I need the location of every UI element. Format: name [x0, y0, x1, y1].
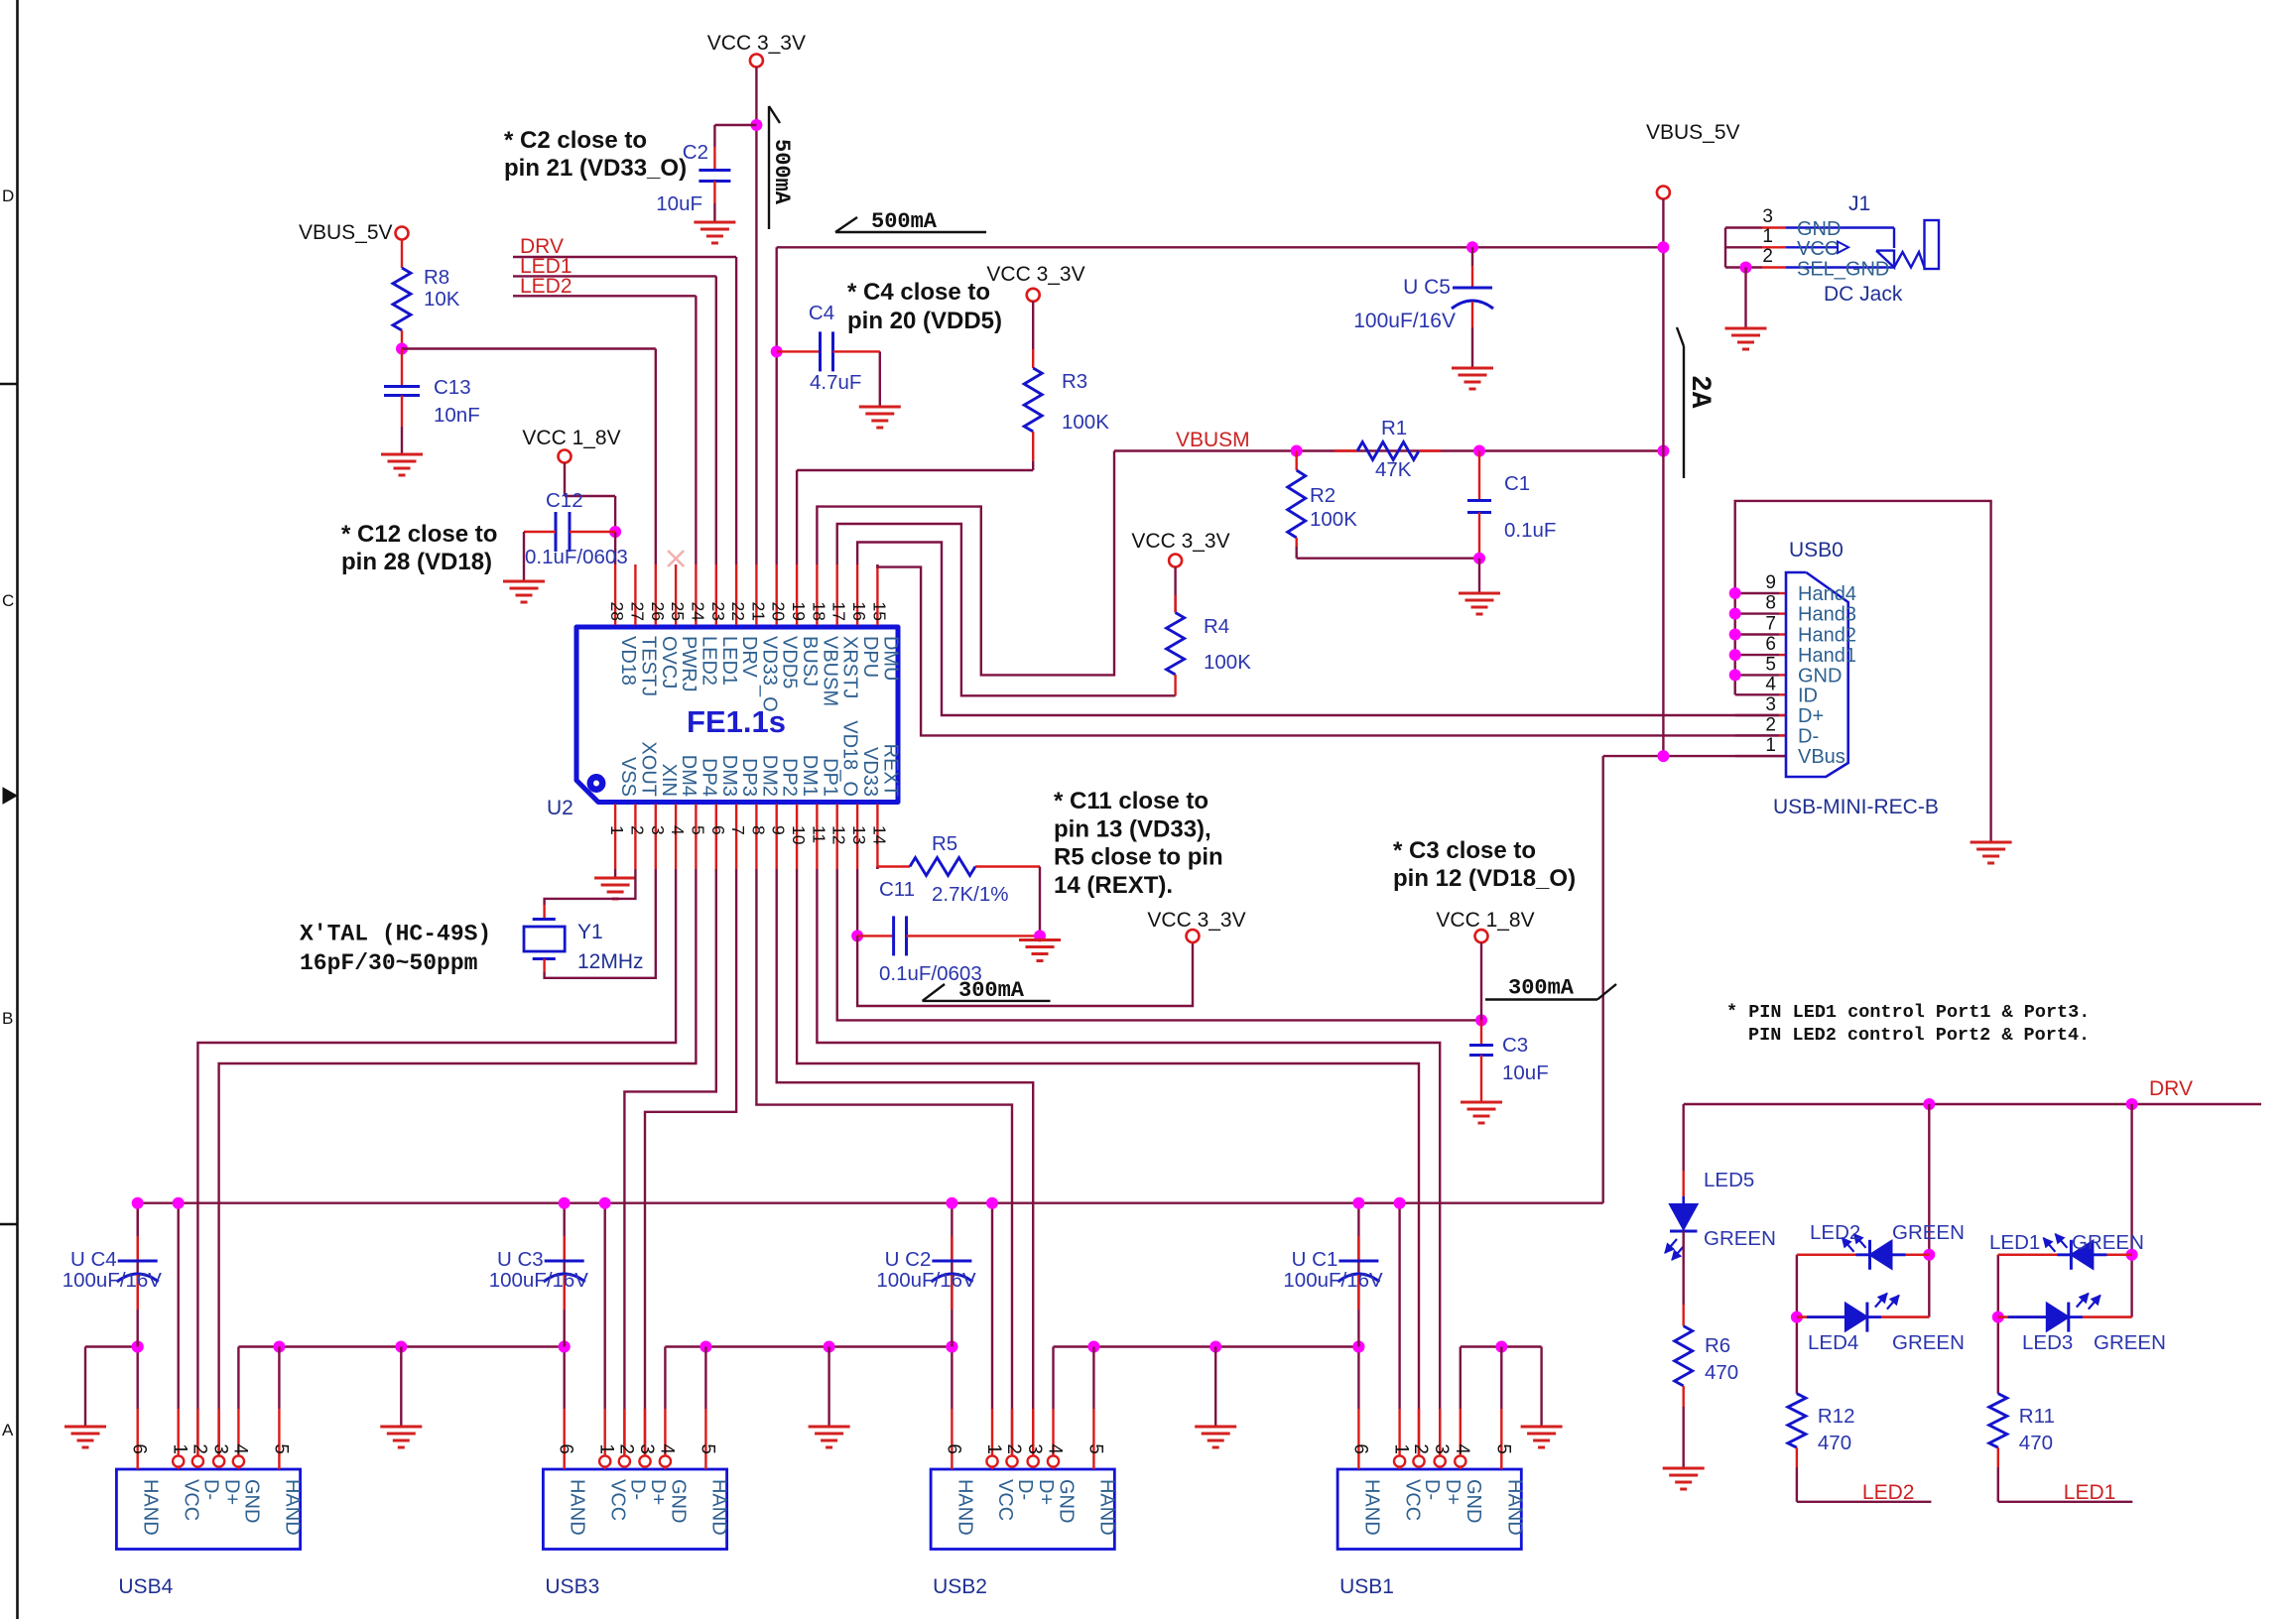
svg-text:100uF/16V: 100uF/16V — [876, 1269, 976, 1292]
svg-text:13: 13 — [849, 825, 869, 844]
svg-text:4: 4 — [1045, 1443, 1066, 1454]
svg-text:18: 18 — [809, 602, 828, 621]
svg-text:Hand1: Hand1 — [1798, 645, 1856, 667]
svg-text:9: 9 — [1765, 572, 1776, 593]
svg-text:R5: R5 — [932, 832, 957, 855]
svg-text:C12: C12 — [546, 489, 583, 512]
svg-text:300mA: 300mA — [958, 978, 1025, 1003]
svg-text:2: 2 — [1003, 1443, 1024, 1454]
svg-text:100uF/16V: 100uF/16V — [1283, 1269, 1383, 1292]
svg-text:Hand4: Hand4 — [1798, 583, 1856, 605]
svg-text:GREEN: GREEN — [1704, 1227, 1776, 1250]
svg-text:XIN: XIN — [658, 764, 680, 797]
svg-text:10nF: 10nF — [434, 404, 480, 427]
svg-text:3: 3 — [636, 1443, 657, 1454]
svg-text:10K: 10K — [424, 288, 460, 311]
svg-text:* C4 close to: * C4 close to — [847, 279, 990, 306]
svg-text:6: 6 — [1765, 634, 1776, 655]
svg-text:D+: D+ — [1442, 1479, 1463, 1505]
svg-text:5: 5 — [1084, 1443, 1105, 1454]
svg-text:XRSTJ: XRSTJ — [839, 636, 861, 698]
svg-text:VSS: VSS — [617, 757, 639, 797]
svg-text:2: 2 — [627, 825, 647, 835]
svg-text:REXT: REXT — [879, 744, 901, 797]
svg-text:U C3: U C3 — [497, 1248, 544, 1271]
svg-text:VCC 3_3V: VCC 3_3V — [1147, 909, 1245, 932]
svg-text:1: 1 — [596, 1443, 617, 1454]
svg-text:USB4: USB4 — [118, 1575, 173, 1598]
svg-text:VCC 1_8V: VCC 1_8V — [1436, 909, 1534, 932]
svg-text:GND: GND — [1463, 1479, 1484, 1523]
svg-text:VCC: VCC — [1797, 238, 1839, 260]
svg-text:1: 1 — [1391, 1443, 1412, 1454]
svg-text:VD33_O: VD33_O — [758, 636, 780, 712]
svg-text:500mA: 500mA — [769, 139, 794, 205]
svg-text:R4: R4 — [1204, 615, 1229, 638]
svg-text:6: 6 — [129, 1443, 150, 1454]
svg-text:4: 4 — [1452, 1443, 1472, 1454]
svg-text:12: 12 — [829, 825, 849, 844]
svg-text:pin 12 (VD18_O): pin 12 (VD18_O) — [1393, 865, 1576, 892]
svg-text:C: C — [2, 591, 14, 610]
svg-text:USB1: USB1 — [1339, 1575, 1394, 1598]
svg-text:VD33: VD33 — [859, 747, 881, 797]
svg-text:LED1: LED1 — [718, 636, 740, 686]
svg-text:D-: D- — [1421, 1479, 1443, 1500]
svg-text:470: 470 — [2019, 1432, 2053, 1454]
svg-text:B: B — [2, 1009, 13, 1028]
svg-text:U C2: U C2 — [885, 1248, 932, 1271]
svg-text:VBUS_5V: VBUS_5V — [1646, 121, 1740, 144]
svg-text:USB3: USB3 — [545, 1575, 599, 1598]
svg-text:U C4: U C4 — [70, 1248, 117, 1271]
svg-text:LED3: LED3 — [2022, 1331, 2073, 1354]
svg-text:0.1uF: 0.1uF — [1504, 519, 1556, 542]
svg-text:100K: 100K — [1062, 411, 1109, 434]
svg-text:R8: R8 — [424, 266, 449, 289]
svg-text:5: 5 — [697, 1443, 717, 1454]
svg-text:GND: GND — [1797, 218, 1841, 240]
svg-text:U C5: U C5 — [1403, 276, 1451, 299]
svg-text:HAND: HAND — [1503, 1479, 1525, 1536]
svg-text:VCC: VCC — [994, 1479, 1016, 1521]
svg-text:6: 6 — [708, 825, 728, 835]
svg-text:100uF/16V: 100uF/16V — [489, 1269, 589, 1292]
svg-text:470: 470 — [1818, 1432, 1851, 1454]
svg-text:11: 11 — [809, 825, 828, 843]
svg-text:USB2: USB2 — [933, 1575, 987, 1598]
svg-text:1: 1 — [1762, 226, 1773, 247]
svg-text:pin 21 (VD33_O): pin 21 (VD33_O) — [504, 155, 687, 182]
svg-text:LED4: LED4 — [1808, 1331, 1858, 1354]
svg-text:D-: D- — [1798, 725, 1819, 747]
svg-text:VBUS_5V: VBUS_5V — [299, 221, 393, 244]
svg-text:GREEN: GREEN — [2094, 1331, 2166, 1354]
svg-text:100uF/16V: 100uF/16V — [63, 1269, 163, 1292]
svg-text:DC Jack: DC Jack — [1824, 283, 1903, 306]
svg-text:OVCJ: OVCJ — [658, 636, 680, 688]
svg-text:pin 28 (VD18): pin 28 (VD18) — [341, 549, 492, 575]
svg-text:C4: C4 — [809, 302, 834, 324]
svg-text:2: 2 — [1410, 1443, 1431, 1454]
svg-text:1: 1 — [983, 1443, 1004, 1454]
svg-text:14 (REXT).: 14 (REXT). — [1054, 872, 1173, 899]
svg-text:4: 4 — [229, 1443, 250, 1454]
svg-text:* C2 close to: * C2 close to — [504, 127, 647, 154]
svg-text:C11: C11 — [879, 878, 915, 901]
svg-text:DM1: DM1 — [799, 755, 821, 797]
svg-text:17: 17 — [829, 602, 849, 621]
svg-text:5: 5 — [270, 1443, 291, 1454]
svg-text:DRV: DRV — [738, 636, 760, 679]
svg-text:8: 8 — [748, 825, 768, 835]
svg-text:9: 9 — [769, 825, 789, 835]
svg-text:DP4: DP4 — [698, 758, 719, 797]
svg-text:470: 470 — [1705, 1361, 1738, 1384]
svg-text:LED2: LED2 — [698, 636, 719, 686]
svg-text:8: 8 — [1765, 593, 1776, 614]
svg-text:* C3 close to: * C3 close to — [1393, 837, 1536, 864]
svg-text:VD18_O: VD18_O — [839, 720, 861, 797]
svg-text:2: 2 — [1762, 246, 1773, 267]
svg-text:2.7K/1%: 2.7K/1% — [932, 883, 1009, 906]
svg-text:VCC 1_8V: VCC 1_8V — [522, 427, 620, 449]
svg-text:pin 13 (VD33),: pin 13 (VD33), — [1054, 815, 1211, 842]
svg-text:24: 24 — [688, 602, 707, 622]
svg-text:LED5: LED5 — [1704, 1169, 1754, 1191]
svg-text:D+: D+ — [1798, 705, 1824, 727]
svg-text:VCC 3_3V: VCC 3_3V — [1131, 530, 1229, 553]
svg-text:D+: D+ — [647, 1479, 669, 1505]
svg-text:VCC 3_3V: VCC 3_3V — [707, 32, 806, 55]
svg-text:6: 6 — [556, 1443, 576, 1454]
svg-text:20: 20 — [769, 602, 789, 622]
svg-text:HAND: HAND — [281, 1479, 303, 1536]
svg-text:3: 3 — [1765, 694, 1776, 715]
svg-text:5: 5 — [1765, 654, 1776, 675]
svg-text:DRV: DRV — [2149, 1077, 2193, 1100]
svg-text:1: 1 — [607, 825, 627, 835]
svg-text:0.1uF/0603: 0.1uF/0603 — [525, 546, 628, 568]
svg-text:2: 2 — [189, 1443, 209, 1454]
svg-text:4: 4 — [668, 825, 688, 835]
svg-text:19: 19 — [789, 602, 809, 621]
svg-text:D-: D- — [1014, 1479, 1036, 1500]
svg-text:USB0: USB0 — [1789, 539, 1844, 562]
svg-text:10uF: 10uF — [656, 192, 702, 215]
svg-text:R5 close to pin: R5 close to pin — [1054, 844, 1223, 871]
svg-text:GND: GND — [667, 1479, 689, 1523]
svg-text:VCC: VCC — [181, 1479, 202, 1521]
svg-text:14: 14 — [869, 825, 889, 845]
svg-text:TESTJ: TESTJ — [637, 636, 659, 696]
svg-text:SEL_GND: SEL_GND — [1797, 259, 1889, 281]
svg-text:VBUSM: VBUSM — [1176, 429, 1250, 451]
svg-text:DM2: DM2 — [758, 755, 780, 797]
svg-text:A: A — [2, 1421, 14, 1439]
svg-text:XOUT: XOUT — [637, 741, 659, 797]
svg-text:HAND: HAND — [954, 1479, 975, 1536]
svg-text:10: 10 — [789, 825, 809, 845]
svg-text:100K: 100K — [1204, 651, 1251, 674]
svg-text:Y1: Y1 — [577, 921, 603, 943]
svg-text:47K: 47K — [1375, 458, 1412, 481]
svg-text:10uF: 10uF — [1502, 1062, 1549, 1084]
svg-text:GREEN: GREEN — [1892, 1221, 1965, 1244]
svg-text:VCC: VCC — [607, 1479, 629, 1521]
svg-text:4: 4 — [656, 1443, 677, 1454]
svg-text:DM3: DM3 — [718, 755, 740, 797]
svg-text:ID: ID — [1798, 685, 1818, 706]
svg-text:* C11 close to: * C11 close to — [1054, 788, 1209, 814]
svg-text:LED2: LED2 — [520, 275, 572, 298]
svg-text:D+: D+ — [221, 1479, 243, 1505]
svg-text:100K: 100K — [1310, 508, 1357, 531]
svg-text:HAND: HAND — [1095, 1479, 1117, 1536]
svg-text:R6: R6 — [1705, 1334, 1730, 1357]
svg-text:7: 7 — [1765, 614, 1776, 635]
svg-text:R12: R12 — [1818, 1405, 1855, 1428]
svg-text:PIN LED2 control Port2 & Port4: PIN LED2 control Port2 & Port4. — [1748, 1025, 2090, 1046]
svg-text:GREEN: GREEN — [2072, 1231, 2144, 1254]
svg-text:28: 28 — [607, 602, 627, 621]
svg-text:2: 2 — [1765, 714, 1776, 735]
svg-text:D: D — [2, 187, 14, 205]
svg-text:25: 25 — [668, 602, 688, 621]
svg-text:GND: GND — [1056, 1479, 1078, 1523]
svg-text:C3: C3 — [1502, 1034, 1528, 1057]
svg-text:3: 3 — [648, 825, 668, 835]
svg-text:15: 15 — [869, 602, 889, 621]
svg-text:2: 2 — [615, 1443, 636, 1454]
svg-text:6: 6 — [1349, 1443, 1370, 1454]
svg-text:3: 3 — [210, 1443, 231, 1454]
svg-text:C13: C13 — [434, 376, 471, 399]
svg-text:GND: GND — [240, 1479, 262, 1523]
svg-text:500mA: 500mA — [871, 209, 938, 234]
svg-text:* PIN LED1 control Port1 & Por: * PIN LED1 control Port1 & Port3. — [1726, 1002, 2090, 1023]
svg-text:GND: GND — [1798, 665, 1842, 687]
svg-text:2A: 2A — [1684, 375, 1715, 409]
svg-text:27: 27 — [627, 602, 647, 621]
svg-text:HAND: HAND — [1360, 1479, 1382, 1536]
svg-text:3: 3 — [1024, 1443, 1045, 1454]
svg-text:R3: R3 — [1062, 370, 1087, 393]
svg-text:VCC 3_3V: VCC 3_3V — [986, 263, 1084, 286]
svg-text:U C1: U C1 — [1292, 1248, 1338, 1271]
svg-text:21: 21 — [748, 602, 768, 621]
svg-text:VBus: VBus — [1798, 746, 1845, 768]
svg-text:3: 3 — [1431, 1443, 1452, 1454]
svg-text:VBUSM: VBUSM — [819, 636, 840, 706]
svg-text:R2: R2 — [1310, 484, 1336, 507]
svg-text:DP2: DP2 — [779, 758, 801, 797]
svg-text:GREEN: GREEN — [1892, 1331, 1965, 1354]
svg-text:26: 26 — [648, 602, 668, 621]
svg-text:DMU: DMU — [879, 636, 901, 682]
svg-text:LED1: LED1 — [2064, 1481, 2116, 1504]
svg-text:D-: D- — [199, 1479, 221, 1500]
svg-text:16pF/30~50ppm: 16pF/30~50ppm — [300, 950, 477, 976]
svg-text:DP1: DP1 — [819, 758, 840, 797]
svg-text:5: 5 — [688, 825, 707, 835]
svg-text:U2: U2 — [547, 797, 573, 819]
svg-text:D-: D- — [626, 1479, 648, 1500]
svg-text:100uF/16V: 100uF/16V — [1353, 310, 1456, 332]
svg-text:DM4: DM4 — [678, 755, 700, 797]
svg-text:LED2: LED2 — [1862, 1481, 1915, 1504]
svg-text:1: 1 — [1765, 735, 1776, 756]
svg-text:BUSJ: BUSJ — [799, 636, 821, 687]
svg-text:7: 7 — [728, 825, 748, 835]
svg-text:16: 16 — [849, 602, 869, 621]
svg-text:4.7uF: 4.7uF — [810, 371, 861, 394]
svg-text:C1: C1 — [1504, 472, 1530, 495]
svg-text:Hand2: Hand2 — [1798, 625, 1856, 647]
svg-text:1: 1 — [170, 1443, 191, 1454]
svg-text:USB-MINI-REC-B: USB-MINI-REC-B — [1773, 796, 1939, 818]
svg-text:pin 20 (VDD5): pin 20 (VDD5) — [847, 308, 1002, 334]
svg-text:VD18: VD18 — [617, 636, 639, 686]
svg-text:D+: D+ — [1035, 1479, 1057, 1505]
svg-text:12MHz: 12MHz — [577, 950, 644, 973]
svg-text:R11: R11 — [2019, 1405, 2055, 1428]
svg-text:23: 23 — [708, 602, 728, 621]
svg-text:6: 6 — [943, 1443, 963, 1454]
svg-text:R1: R1 — [1381, 417, 1407, 439]
svg-text:HAND: HAND — [567, 1479, 588, 1536]
svg-text:LED2: LED2 — [1810, 1221, 1860, 1244]
svg-text:VDD5: VDD5 — [779, 636, 801, 688]
svg-text:LED1: LED1 — [1989, 1231, 2040, 1254]
svg-text:PWRJ: PWRJ — [678, 636, 700, 692]
svg-text:* C12 close to: * C12 close to — [341, 521, 497, 548]
svg-text:Hand3: Hand3 — [1798, 604, 1856, 626]
svg-text:HAND: HAND — [140, 1479, 162, 1536]
svg-text:3: 3 — [1762, 206, 1773, 227]
svg-text:J1: J1 — [1848, 192, 1870, 215]
svg-text:HAND: HAND — [707, 1479, 729, 1536]
svg-text:DP3: DP3 — [738, 758, 760, 797]
svg-text:300mA: 300mA — [1508, 976, 1575, 1001]
svg-text:4: 4 — [1765, 674, 1776, 694]
svg-text:5: 5 — [1492, 1443, 1513, 1454]
svg-text:22: 22 — [728, 602, 748, 621]
svg-text:X'TAL (HC-49S): X'TAL (HC-49S) — [300, 922, 491, 947]
svg-text:DPU: DPU — [859, 636, 881, 678]
svg-text:VCC: VCC — [1402, 1479, 1424, 1521]
